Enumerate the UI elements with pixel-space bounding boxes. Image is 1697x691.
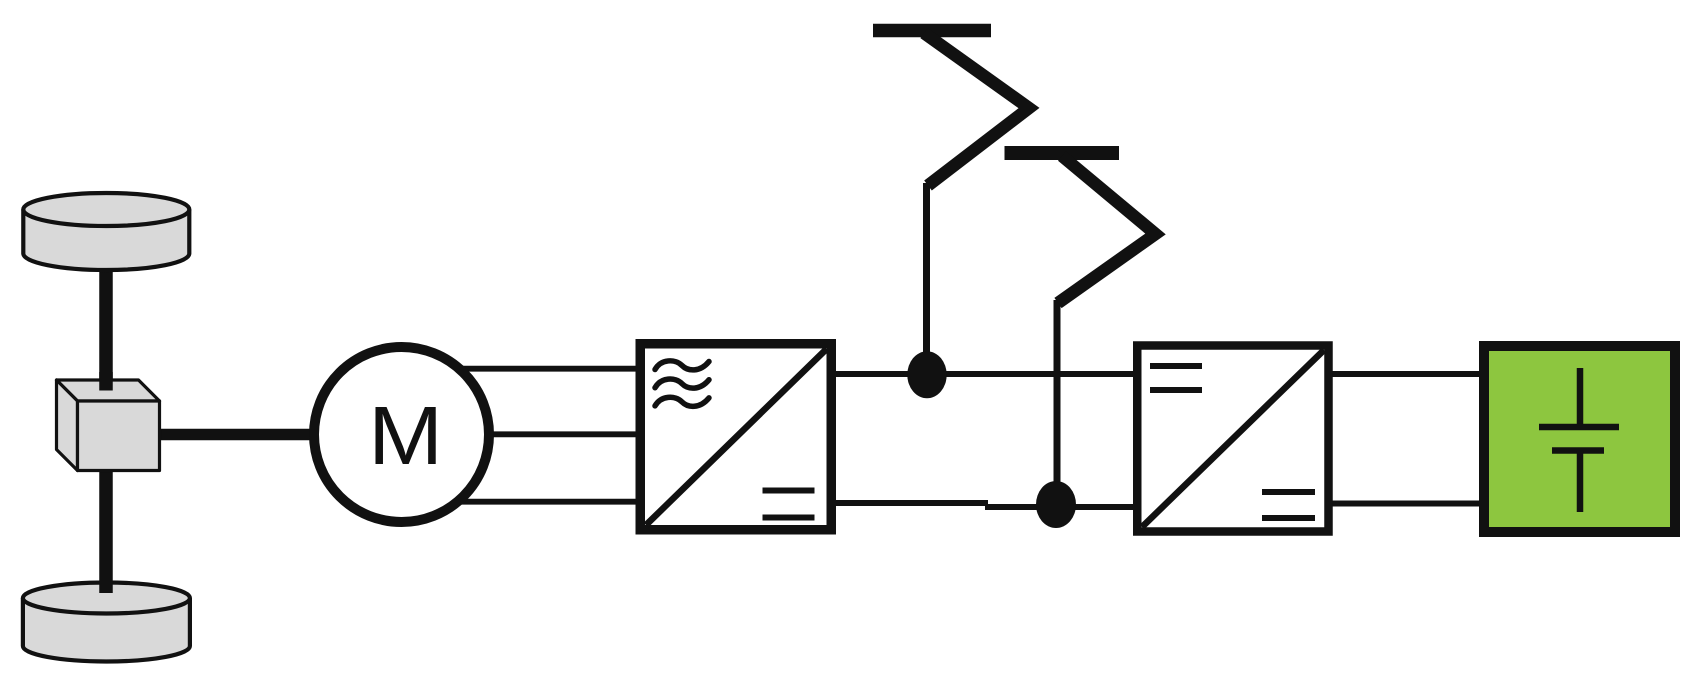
svg-text:M: M (368, 390, 443, 482)
